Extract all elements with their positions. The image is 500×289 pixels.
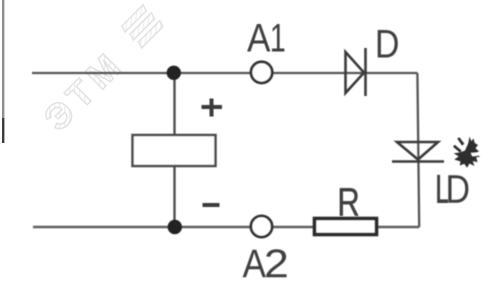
polarity label - — [203, 203, 220, 207]
junction: top node — [167, 66, 181, 80]
resistor R — [315, 219, 377, 235]
label D — [378, 30, 398, 58]
wire: coil branch vertical — [173, 73, 175, 227]
label A1 — [247, 24, 284, 52]
wire: top rail — [32, 72, 417, 74]
label LD — [438, 175, 469, 203]
terminal A1 — [251, 62, 272, 83]
wire: bottom rail — [33, 226, 419, 229]
wire: right vertical branch — [417, 73, 419, 227]
diode D — [346, 48, 366, 96]
polarity label + — [202, 99, 223, 117]
coil K (relay box) — [133, 135, 216, 166]
LED LD — [392, 142, 444, 162]
light emission icon — [453, 137, 480, 168]
label A2 — [243, 249, 287, 277]
terminal A2 — [251, 216, 272, 237]
label R — [340, 188, 359, 216]
junction: bottom node — [168, 220, 182, 234]
